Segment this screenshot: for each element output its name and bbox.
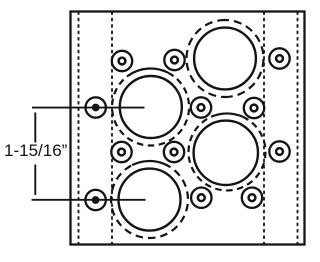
dashed section line left inner <box>78 12 80 245</box>
dimension leader top <box>32 107 145 109</box>
bolt hole B6 <box>244 98 264 118</box>
dashed clearance ring lower-right bore <box>189 113 266 190</box>
dimension vertical line upper segment <box>34 113 36 143</box>
svg-text:1-15/16”: 1-15/16” <box>4 141 68 160</box>
cylinder bore lower-right <box>194 121 258 185</box>
block outline <box>71 12 305 245</box>
cylinder bore lower-left <box>119 169 181 231</box>
dimension vertical line lower segment <box>34 165 36 196</box>
dashed section line left mid <box>111 12 113 245</box>
dashed section line right inner <box>297 12 299 245</box>
dimension leader bottom <box>32 199 146 201</box>
bolt hole B11 <box>191 188 211 208</box>
bolt hole B8 <box>164 142 184 162</box>
bolt hole B10 (dimension datum, filled center) <box>85 190 105 210</box>
dashed clearance ring upper-right bore <box>186 20 263 97</box>
dashed clearance ring upper-left bore <box>112 69 189 146</box>
cylinder bore upper-left <box>120 76 182 138</box>
bolt hole B2 <box>164 50 184 70</box>
dashed clearance ring lower-left bore <box>111 161 188 238</box>
bolt hole B4 (dimension datum, filled center) <box>86 97 106 117</box>
bolt hole B5 <box>191 97 211 117</box>
bolt hole B12 <box>242 188 262 208</box>
dashed section line right mid <box>263 12 265 245</box>
bolt hole B7 <box>111 142 131 162</box>
bolt hole B1 <box>112 51 132 71</box>
bolt hole B9 <box>269 141 289 161</box>
bolt hole B3 <box>269 48 289 68</box>
cylinder bore upper-right <box>194 28 256 90</box>
